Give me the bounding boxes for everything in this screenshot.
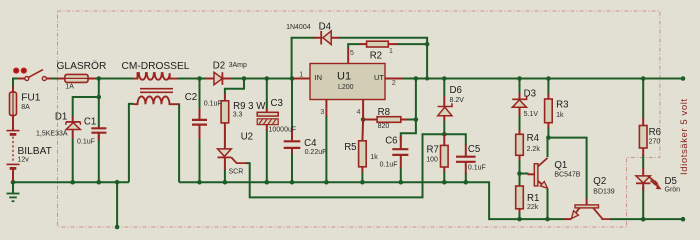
wire D3 to R4 (519, 115, 521, 131)
resistor R6 (639, 118, 647, 156)
wire D4 right to R2 right drop (339, 38, 428, 79)
resistor R8 (363, 117, 407, 123)
svg-text:22k: 22k (527, 204, 539, 211)
svg-text:FU1: FU1 (21, 93, 41, 104)
fuse FU1 lead stubs (12, 87, 14, 130)
svg-text:IN: IN (315, 73, 323, 82)
junction U2 cathode (223, 180, 228, 185)
wire top rail left segment (12, 78, 21, 80)
svg-text:3.3: 3.3 (233, 111, 243, 118)
wire R1 top lead (519, 174, 521, 187)
wire stub to enclosure bottom (116, 182, 118, 227)
switch lever (29, 70, 43, 78)
wire R1 bottom lead (519, 212, 521, 220)
wire R2 right lead (397, 43, 427, 45)
wire switch to fuse (52, 78, 59, 80)
wire C3 bottom lead (266, 130, 268, 183)
svg-text:100: 100 (426, 157, 438, 164)
svg-text:D5: D5 (665, 176, 677, 187)
junction node A top (414, 76, 419, 81)
svg-text:1N4004: 1N4004 (286, 24, 311, 31)
svg-text:8.2V: 8.2V (450, 97, 465, 104)
svg-text:0.1uF: 0.1uF (380, 161, 398, 168)
svg-text:0.22uF: 0.22uF (305, 149, 327, 156)
junction pin3 ground (324, 180, 329, 185)
svg-text:820: 820 (378, 123, 390, 130)
svg-text:R6: R6 (649, 127, 661, 138)
wire C4 top lead (291, 79, 293, 130)
junction C6 bottom (399, 180, 404, 185)
svg-text:1k: 1k (556, 112, 564, 119)
choke L1 core bars (140, 89, 173, 93)
junction fuse output node (97, 76, 102, 81)
zener D6 (8.2V) (438, 96, 452, 121)
svg-text:BC547B: BC547B (554, 172, 580, 179)
svg-text:Q1: Q1 (554, 160, 567, 171)
junction R6 top (641, 76, 646, 81)
wire Q1 emitter vertical (547, 189, 549, 220)
LED D5 (Gron) (636, 168, 662, 191)
resistor R5 (359, 120, 367, 173)
fuse FU1 body (10, 92, 17, 115)
wire D5 bottom lead (642, 186, 644, 219)
svg-text:0.1uF: 0.1uF (204, 101, 222, 108)
svg-text:2.2k: 2.2k (527, 146, 541, 153)
svg-text:R3: R3 (556, 100, 568, 111)
battery bottom lead (12, 129, 14, 181)
wire Q1 collector vertical (547, 138, 549, 158)
choke L1 top winding (133, 73, 179, 104)
switch actuator red dots (13, 68, 27, 74)
junction D6 top (442, 76, 447, 81)
junction C2 top (197, 76, 202, 81)
junction pin4/R8/R5 (361, 117, 366, 122)
junction R3 top (546, 76, 551, 81)
svg-text:D6: D6 (450, 85, 462, 96)
wire ground bus left (13, 181, 129, 183)
fuse F2 body (65, 74, 88, 82)
svg-text:GLASRÖR: GLASRÖR (57, 60, 107, 72)
battery BILBAT plates (7, 130, 20, 132)
wire choke top right to C2 junction (177, 78, 206, 80)
wire pin1 into U1 (292, 78, 295, 80)
junction D3 top (517, 76, 522, 81)
wire C2 bottom lead (199, 138, 201, 182)
wire R8 right lead (406, 119, 416, 121)
svg-text:2: 2 (392, 80, 396, 87)
wire choke lower-left lead down (129, 104, 134, 182)
svg-text:Grön: Grön (665, 187, 681, 194)
zener D3 (5.1V) (512, 93, 526, 116)
svg-text:3Amp: 3Amp (229, 62, 247, 69)
wire pin5 vertical (348, 44, 360, 48)
diode D2 (3Amp) (206, 72, 232, 85)
svg-text:R7: R7 (427, 145, 439, 156)
svg-text:Q2: Q2 (593, 176, 606, 187)
svg-text:R1: R1 (527, 193, 539, 204)
junction C3 bottom (265, 180, 270, 185)
junction Q1 collector/R3/Q2 base (546, 135, 551, 140)
wire R4 bottom to base node (519, 160, 521, 174)
wire D3 column upper (519, 79, 521, 94)
resistor R4 (516, 130, 524, 160)
svg-text:C5: C5 (468, 144, 480, 155)
wire end chassis point (115, 225, 120, 230)
svg-text:R8: R8 (378, 107, 390, 118)
wire left rail down from switch (12, 78, 14, 88)
enclosure dashed border (58, 11, 660, 227)
wire C4 bottom lead (291, 153, 293, 183)
wire R7 bottom lead (443, 171, 445, 182)
svg-text:R4: R4 (527, 133, 540, 144)
junction output drop (425, 77, 429, 81)
fuse F2 GLASROR lead stubs (58, 78, 96, 80)
wire R5 bottom lead (361, 172, 363, 183)
svg-text:10000uF: 10000uF (269, 127, 297, 134)
junction R1 bottom (517, 217, 522, 222)
junction node B D6/R7/C5/gate (442, 132, 447, 137)
resistor R7 (441, 134, 449, 172)
wire C1 bottom to ground bus (98, 134, 100, 182)
svg-text:C3: C3 (271, 98, 283, 109)
svg-text:C2: C2 (185, 92, 197, 103)
junction D5 cathode (641, 217, 646, 222)
wire FU1 top lead (12, 87, 14, 93)
junction D1 bottom (70, 180, 75, 185)
wire end LED net (681, 217, 686, 222)
svg-text:UT: UT (374, 73, 384, 82)
wire SCR cathode lead (224, 169, 226, 182)
svg-text:U1: U1 (337, 71, 351, 83)
wire Q2 collector to LED net (610, 218, 683, 220)
svg-text:R5: R5 (344, 142, 356, 153)
wire junction down to C1/D1 node (98, 79, 100, 128)
wire C3 top lead (266, 79, 268, 109)
wire fuse to choke (94, 78, 134, 80)
wire node A down jog to C6 (401, 120, 416, 141)
wire D6 bottom to node B (443, 120, 445, 135)
svg-text:0.1uF: 0.1uF (77, 139, 95, 146)
U1 regulator L200 (294, 48, 403, 119)
svg-text:5: 5 (350, 50, 354, 57)
svg-text:8A: 8A (21, 104, 30, 111)
junction R7 bottom (442, 180, 447, 185)
svg-text:D2: D2 (213, 60, 225, 71)
svg-text:U2: U2 (241, 132, 253, 143)
junction R4/R1/Q1 base (517, 171, 522, 176)
wire D6 top lead (443, 79, 445, 97)
capacitor C6 (392, 136, 408, 168)
svg-text:BILBAT: BILBAT (18, 146, 52, 157)
SCR U2 (218, 149, 247, 170)
wire R3 top lead (547, 79, 549, 95)
svg-text:CM-DROSSEL: CM-DROSSEL (122, 61, 190, 72)
svg-text:5.1V: 5.1V (524, 111, 539, 118)
wire choke lower-right lead down to mid ground bus (178, 104, 179, 182)
svg-text:1k: 1k (370, 154, 378, 161)
wire C6 bottom lead (400, 167, 402, 182)
svg-text:D1: D1 (55, 112, 67, 123)
capacitor C1 (91, 127, 106, 141)
diode D1 (1,5KE33A) (66, 117, 81, 139)
svg-text:R2: R2 (370, 50, 382, 61)
wire node A vertical to output rail (415, 79, 417, 120)
choke L1 bottom winding (133, 96, 178, 104)
wire SCR gate run (246, 134, 444, 197)
junction C1 bottom (97, 180, 102, 185)
svg-text:3: 3 (320, 109, 324, 116)
transistor Q1 BC547B (528, 158, 548, 188)
wire node A horizontal y97 (73, 97, 99, 118)
svg-text:270: 270 (649, 138, 661, 145)
switch SW1 lead stubs (17, 78, 52, 80)
svg-text:12v: 12v (18, 157, 30, 164)
resistor R3 (545, 94, 553, 128)
wire R6 top lead (642, 79, 644, 119)
junction C3 top (265, 76, 270, 81)
wire Q2 base run (548, 138, 586, 200)
junction battery minus (11, 180, 16, 185)
wire D1 bottom to ground bus (72, 138, 74, 183)
wire output rail (402, 78, 683, 80)
wire D2 cathode to R9 jog (231, 78, 293, 80)
svg-text:1: 1 (299, 72, 303, 79)
switch pin circles (25, 77, 29, 81)
svg-text:SCR: SCR (229, 169, 244, 176)
junction D1/C1 tap (97, 95, 102, 100)
junction C4/D4 input node (290, 76, 295, 81)
resistor R1 (516, 186, 524, 213)
junction D4/R2 right (425, 42, 430, 47)
svg-text:C1: C1 (84, 116, 96, 127)
svg-text:0.1uF: 0.1uF (468, 165, 486, 172)
wire pin4 to R8 junction (362, 118, 364, 120)
svg-text:D3: D3 (524, 89, 536, 100)
diode D4 (1N4004) (314, 31, 340, 45)
svg-text:L200: L200 (338, 84, 354, 91)
capacitor C4 (284, 129, 301, 154)
wire node B to C5 jog (444, 134, 466, 145)
junction C5 bottom (464, 180, 469, 185)
wire C5 bottom lead (465, 173, 467, 182)
svg-text:D4: D4 (319, 21, 332, 32)
junction Q1 emitter (545, 217, 550, 222)
capacitor C5 (456, 145, 476, 175)
wire end output rail (681, 76, 686, 81)
resistor R2 (360, 41, 398, 47)
junction chassis stub top (115, 180, 120, 185)
wire battery minus to ground symbol (12, 182, 14, 193)
wire D4 left drop (291, 38, 293, 79)
wire C2 top lead (199, 79, 201, 109)
wire R9 jog down (225, 79, 244, 95)
svg-text:Idiotsäker 5 volt: Idiotsäker 5 volt (679, 98, 690, 175)
ground symbol (7, 194, 20, 202)
svg-text:1,5KE33A: 1,5KE33A (36, 130, 68, 137)
capacitor C2 (192, 108, 207, 139)
wire pin3 down to ground (325, 116, 327, 183)
svg-text:4: 4 (357, 109, 361, 116)
svg-text:BD139: BD139 (593, 189, 615, 196)
wire mid ground bus (179, 182, 564, 219)
wire D4 left horizontal (292, 38, 315, 39)
wire R3 bottom to Q2 base node (547, 127, 549, 138)
svg-text:C6: C6 (385, 136, 397, 147)
wire R6 to D5 (642, 155, 644, 169)
resistor R9 3W (221, 94, 229, 150)
junction C4 bottom (290, 180, 295, 185)
wire base node to Q1 base (520, 173, 529, 175)
junction R9 tap (242, 76, 247, 81)
junction node A (414, 117, 419, 122)
junction R5 bottom (360, 180, 365, 185)
svg-text:C4: C4 (304, 138, 317, 149)
svg-text:1A: 1A (65, 84, 74, 91)
electrolytic C3 (257, 108, 278, 131)
junction C2 bottom (197, 180, 202, 185)
svg-text:1: 1 (389, 48, 393, 55)
transistor Q2 BD139 (564, 199, 611, 220)
